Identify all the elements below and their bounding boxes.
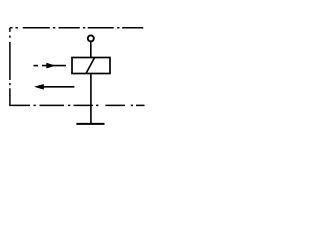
terminal circle [88,35,94,41]
wire: circle to component body [90,42,92,57]
bottom terminal bar [76,123,104,125]
wire: body down to bottom bar [90,74,92,124]
control arrow shaft [42,65,66,67]
enclosure boundary, top side (dash-dot) [10,27,143,29]
enclosure boundary, bottom side (dash-dot) [9,104,144,106]
control arrowhead (points right) [46,63,55,69]
output arrowhead (points left) [34,84,44,90]
control line dash segment [34,65,39,67]
diagonal slash inside body [86,58,95,74]
enclosure boundary, left side (dash-dot) [9,28,11,106]
output arrow shaft [43,86,74,88]
component body rectangle [72,58,110,74]
